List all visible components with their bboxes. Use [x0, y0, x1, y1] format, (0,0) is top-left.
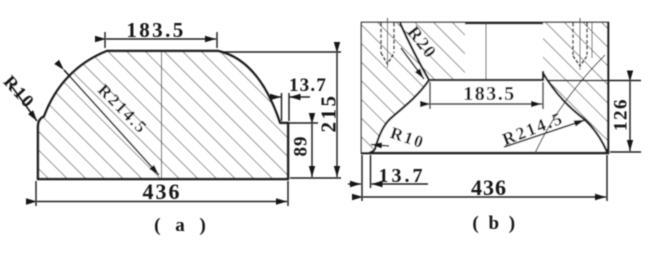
svg-text:183.5: 183.5	[463, 83, 516, 105]
svg-text:436: 436	[143, 179, 182, 204]
svg-text:( b ): ( b )	[472, 213, 517, 234]
svg-text:183.5: 183.5	[126, 18, 185, 42]
svg-text:89: 89	[291, 136, 312, 157]
svg-text:( a ): ( a )	[154, 215, 211, 236]
svg-text:R10: R10	[0, 72, 39, 113]
svg-text:13.7: 13.7	[379, 165, 426, 187]
svg-text:436: 436	[471, 175, 507, 200]
svg-text:215: 215	[317, 94, 341, 133]
svg-text:126: 126	[611, 98, 632, 131]
svg-text:13.7: 13.7	[289, 75, 327, 96]
